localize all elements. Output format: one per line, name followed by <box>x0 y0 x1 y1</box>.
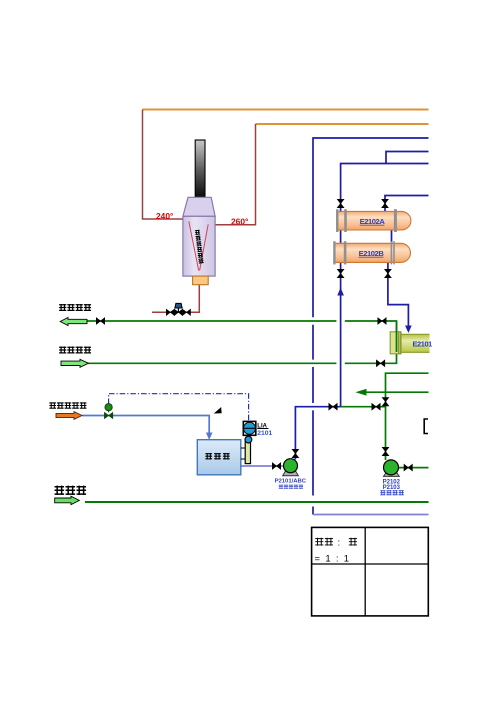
label demin pump <box>380 490 385 495</box>
svg-text::: : <box>338 538 341 549</box>
svg-text:E2102B: E2102B <box>359 249 385 258</box>
wire navy header down line <box>313 138 429 515</box>
furnace top trapezoid <box>183 197 215 216</box>
valve tank to pump <box>272 463 280 470</box>
furnace flame V <box>189 221 208 270</box>
svg-text:240°: 240° <box>156 211 173 221</box>
label methanol tank <box>205 453 212 460</box>
wire green demin water branch <box>386 373 429 460</box>
furnace chimney <box>195 140 205 198</box>
valve below E2102B left <box>337 269 344 277</box>
label circulating hot water <box>59 304 66 311</box>
wire navy branch upper <box>386 152 429 164</box>
wire maroon 240 line <box>143 110 183 220</box>
pump P2101/ABC <box>283 471 299 476</box>
wire green circulating cold water <box>88 352 397 363</box>
heat exchanger E2102B <box>335 243 411 262</box>
wire orange header 2 <box>256 123 429 125</box>
wire orange header 1 <box>143 109 429 111</box>
svg-text:P2101/ABC: P2101/ABC <box>275 478 307 484</box>
arrow cold water in (right) <box>61 359 88 367</box>
wire navy P2101 discharge <box>295 407 340 460</box>
arrow navy into E2101 <box>405 326 412 334</box>
valve hot water line left <box>96 318 104 325</box>
control ball valve methanol feed <box>104 412 112 418</box>
bracket marker right edge <box>424 419 428 434</box>
control valve group on fuel line <box>166 309 174 315</box>
wire navy to E2102A right nozzle <box>385 196 429 213</box>
wire navy E2102B outlet to E2101 <box>388 262 409 330</box>
wire fuel line from burner <box>152 285 199 313</box>
svg-text:260°: 260° <box>231 216 248 226</box>
valve cold water right <box>376 360 384 367</box>
methanol tank V2101 <box>197 440 241 475</box>
wire green hot water inlet over vessel head <box>396 321 398 352</box>
level gauge stubs <box>241 448 245 459</box>
valve demin riser upper <box>382 398 389 406</box>
label circulating cold water <box>59 346 66 353</box>
arrow methanol in (orange) <box>56 412 82 420</box>
valve P2102 discharge <box>404 464 412 471</box>
wire maroon 260 line <box>215 124 256 225</box>
arrow navy up riser <box>337 288 344 296</box>
table text methanol : water <box>315 538 323 546</box>
arrow hot water out (left) <box>60 318 87 326</box>
furnace body F2101 <box>183 216 215 276</box>
wire green P2102 discharge <box>398 467 429 469</box>
valve demin riser lower <box>382 447 389 455</box>
wire navy exchanger left riser <box>340 229 342 407</box>
marker triangle near tank inlet <box>214 407 222 414</box>
valve mix junction green <box>372 403 380 410</box>
wire violet tank to P2101 suction <box>241 465 284 467</box>
instrument LIA 2101 <box>243 421 256 435</box>
wire green mix junction segment <box>341 406 386 408</box>
arrow demin water in <box>55 496 80 504</box>
wire signal dash-dot LIA to valve <box>109 394 249 421</box>
svg-text:= 1 : 1: = 1 : 1 <box>315 553 350 564</box>
level gauge <box>245 441 250 463</box>
table frame <box>312 527 429 616</box>
instrument bubble small <box>245 436 252 443</box>
wire methanol feed line <box>82 416 209 434</box>
control valve actuator <box>177 308 179 312</box>
furnace burner <box>193 276 209 285</box>
wire violet bottom line <box>313 514 429 516</box>
wire navy to E2102A left nozzle <box>341 164 429 213</box>
svg-text:P2103: P2103 <box>383 485 401 491</box>
valve above E2102A left <box>337 199 344 207</box>
arrow green left <box>355 389 366 396</box>
wire green return line with arrow <box>366 391 429 393</box>
svg-text:2101: 2101 <box>257 430 272 437</box>
valve hot water right <box>378 318 386 325</box>
svg-text:E2101: E2101 <box>413 340 433 349</box>
svg-text:E2102A: E2102A <box>360 217 386 226</box>
valve mix junction navy <box>329 403 337 410</box>
wire navy A-B right connector <box>391 229 393 244</box>
label demineralized water <box>55 486 65 495</box>
valve below E2102B right <box>385 269 392 277</box>
wire green circulating hot water <box>62 321 397 333</box>
arrow feed into tank <box>206 433 213 441</box>
pump P2102 P2103 <box>384 473 400 477</box>
valve above E2102A right <box>382 199 389 207</box>
furnace vertical label <box>195 230 204 264</box>
wire green demineralized water header <box>85 501 429 503</box>
vessel E2101 <box>390 332 401 354</box>
heat exchanger E2102A <box>337 211 411 230</box>
label methanol to unit <box>49 402 56 409</box>
valve P2101 discharge <box>292 449 299 457</box>
